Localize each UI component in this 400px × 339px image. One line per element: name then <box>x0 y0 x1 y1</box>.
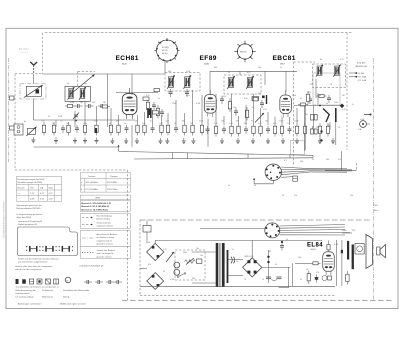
svg-text:300: 300 <box>300 161 303 163</box>
svg-text:u(bei Stat.2540): u(bei Stat.2540) <box>16 216 31 219</box>
svg-text:25k: 25k <box>350 195 353 197</box>
svg-text:200: 200 <box>326 159 329 161</box>
svg-text:0,5M: 0,5M <box>334 244 339 246</box>
svg-text:ground in chassis: ground in chassis <box>97 243 113 246</box>
svg-text:5k: 5k <box>228 72 230 74</box>
svg-text:0,25: 0,25 <box>342 109 346 111</box>
svg-text:Änderungen vorbehalten!: Änderungen vorbehalten! <box>18 303 42 306</box>
svg-text:EL 84: EL 84 <box>162 53 168 55</box>
svg-text:ECH81: ECH81 <box>162 47 170 49</box>
svg-text:47k: 47k <box>66 123 69 125</box>
svg-text:EL84: EL84 <box>307 242 323 248</box>
svg-text:0,05: 0,05 <box>247 72 251 74</box>
svg-text:EF89: EF89 <box>200 55 217 62</box>
svg-text:1n: 1n <box>352 104 354 106</box>
svg-text:1k: 1k <box>109 123 111 125</box>
svg-text:Kondensatoren: Kondensatoren <box>16 292 31 295</box>
svg-text:5k: 5k <box>190 123 192 125</box>
svg-text:70: 70 <box>244 279 246 281</box>
svg-text:5k: 5k <box>174 123 176 125</box>
svg-text:5k: 5k <box>286 239 288 241</box>
svg-text:300: 300 <box>316 127 319 129</box>
svg-text:Drahtbrücke: Drahtbrücke <box>42 289 54 292</box>
svg-text:Europaspannungen bis HJ58: Europaspannungen bis HJ58 <box>18 178 46 181</box>
svg-text:10n: 10n <box>84 83 87 85</box>
svg-text:50: 50 <box>306 269 308 271</box>
svg-text:6BD7: 6BD7 <box>280 64 286 66</box>
svg-text:47k: 47k <box>316 272 319 274</box>
svg-text:auf unbestimmte aufgenommen: auf unbestimmte aufgenommen <box>18 261 48 264</box>
svg-text:negativer pole to: negativer pole to <box>97 239 113 242</box>
svg-text:0,25: 0,25 <box>214 123 218 125</box>
svg-text:5k: 5k <box>275 264 277 266</box>
svg-text:0,5M: 0,5M <box>70 102 75 104</box>
svg-text:Bereich 3: 10,7 MHz Ratio: Bereich 3: 10,7 MHz Ratio <box>82 208 109 211</box>
svg-text:10n: 10n <box>200 255 203 257</box>
svg-text:50: 50 <box>326 103 328 105</box>
svg-text:47k: 47k <box>273 123 276 125</box>
svg-text:47k: 47k <box>308 92 311 94</box>
svg-text:6AJ8: 6AJ8 <box>122 63 128 66</box>
svg-text:side de von den components: side de von den components <box>15 268 42 271</box>
svg-text:6BQ5: 6BQ5 <box>311 249 317 251</box>
svg-text:DC working voltage: DC working voltage <box>16 295 35 298</box>
svg-text:0,05: 0,05 <box>338 159 342 161</box>
svg-text:In Gegenrichtung gemessen: In Gegenrichtung gemessen <box>16 213 43 216</box>
svg-text:150k: 150k <box>222 96 226 98</box>
svg-text:0,1: 0,1 <box>284 160 287 162</box>
svg-text:10n: 10n <box>196 248 199 250</box>
svg-text:Germany: Germany <box>19 51 29 54</box>
svg-text:Anschluss als Batterie: Anschluss als Batterie <box>97 233 118 236</box>
svg-text:5k: 5k <box>228 185 230 187</box>
svg-text:5k: 5k <box>74 121 76 123</box>
svg-text:50: 50 <box>67 83 69 85</box>
svg-text:6DA6: 6DA6 <box>204 63 210 66</box>
svg-text:ground / chassis: ground / chassis <box>97 255 112 258</box>
svg-text:0,5M: 0,5M <box>196 103 201 105</box>
svg-text:1k: 1k <box>262 279 264 281</box>
svg-text:10n: 10n <box>258 67 261 69</box>
svg-text:1k: 1k <box>312 159 314 161</box>
svg-text:70: 70 <box>60 121 62 123</box>
svg-text:• Si 400: • Si 400 <box>357 73 365 75</box>
svg-text:5k: 5k <box>150 121 152 123</box>
svg-text:87,5-100MHz: 87,5-100MHz <box>86 189 98 191</box>
svg-text:AW3561-6A: AW3561-6A <box>356 65 368 68</box>
svg-text:0,5M: 0,5M <box>294 121 299 123</box>
svg-text:1n: 1n <box>287 123 289 125</box>
svg-text:70: 70 <box>330 84 332 86</box>
svg-text:5k: 5k <box>48 116 50 118</box>
svg-text:migration marked: migration marked <box>97 225 114 228</box>
svg-text:1n: 1n <box>52 123 54 125</box>
svg-text:47k: 47k <box>244 123 247 125</box>
svg-text:0,25: 0,25 <box>340 59 344 61</box>
svg-text:0,25: 0,25 <box>165 121 169 123</box>
svg-text:230V: 230V <box>374 205 379 207</box>
svg-text:max. messbare St.: max. messbare St. <box>97 252 115 255</box>
svg-text:T.A.: T.A. <box>358 128 362 131</box>
svg-text:Busher-Umbro: Busher-Umbro <box>97 218 111 221</box>
svg-text:UKW: UKW <box>95 198 100 200</box>
svg-text:0,5M: 0,5M <box>360 119 365 121</box>
svg-text:50Hz: 50Hz <box>374 210 378 212</box>
svg-text:Gelocht plate seen from the co: Gelocht plate seen from the components <box>15 265 52 268</box>
svg-text:150k: 150k <box>183 252 187 254</box>
svg-text:0,25: 0,25 <box>163 249 167 251</box>
svg-text:Bereich: Bereich <box>18 187 26 190</box>
svg-text:Schaltungsänderungen vorbehalt: Schaltungsänderungen vorbehalten <box>3 201 6 238</box>
svg-text:Röhrenvoltmeter RV55/65: Röhrenvoltmeter RV55/65 <box>16 207 41 210</box>
svg-text:0,25: 0,25 <box>146 95 150 97</box>
svg-text:Bereich 2: 87,5-100 MHz Zf: Bereich 2: 87,5-100 MHz Zf <box>82 206 110 208</box>
svg-text:150k: 150k <box>334 102 338 104</box>
svg-text:2M: 2M <box>236 121 239 123</box>
svg-text:0,3P: 0,3P <box>30 199 35 201</box>
svg-text:0,001µF=1nF=1000pF·µF: 0,001µF=1nF=1000pF·µF <box>80 266 105 268</box>
svg-text:• DY 4,6A: • DY 4,6A <box>357 79 367 82</box>
svg-text:1k: 1k <box>252 107 254 109</box>
svg-text:25k: 25k <box>318 95 321 97</box>
svg-text:8n: 8n <box>24 121 26 123</box>
svg-text:Federn auf der Unterseite von: Federn auf der Unterseite von den Gehäus… <box>18 258 60 261</box>
svg-text:Watt: Watt <box>49 187 54 190</box>
svg-text:2M: 2M <box>80 102 83 104</box>
svg-text:Schaltdraht der Widerstände: Schaltdraht der Widerstände <box>63 289 90 292</box>
svg-text:500: 500 <box>298 257 301 259</box>
svg-text:8n: 8n <box>320 59 322 61</box>
svg-text:50: 50 <box>282 195 284 197</box>
svg-text:300: 300 <box>268 251 271 253</box>
svg-text:25k: 25k <box>258 93 261 95</box>
svg-text:200: 200 <box>214 67 217 69</box>
svg-text:300: 300 <box>327 125 330 127</box>
svg-text:0,05: 0,05 <box>186 95 190 97</box>
svg-text:2M: 2M <box>182 121 185 123</box>
svg-text:very disposition descriptions: very disposition descriptions du composa… <box>16 286 59 289</box>
svg-text:0,05: 0,05 <box>263 109 267 111</box>
svg-text:5k: 5k <box>300 279 302 281</box>
svg-text:• SY 4,8A: • SY 4,8A <box>357 76 367 79</box>
svg-text:47k: 47k <box>221 121 224 123</box>
svg-text:M: M <box>67 280 69 282</box>
svg-text:200: 200 <box>233 107 236 109</box>
svg-text:47k: 47k <box>148 264 151 266</box>
svg-text:150k: 150k <box>199 121 203 123</box>
svg-text:50: 50 <box>236 261 238 263</box>
svg-text:Spannungen gemessen mit: Spannungen gemessen mit <box>16 204 42 207</box>
svg-text:0,5M: 0,5M <box>58 116 63 118</box>
svg-text:2M: 2M <box>342 95 345 97</box>
svg-text:Bd 3504: Bd 3504 <box>19 47 29 51</box>
svg-text:47k: 47k <box>294 195 297 197</box>
svg-text:1510-230m: 1510-230m <box>107 189 118 191</box>
svg-text:1k: 1k <box>232 249 234 251</box>
svg-text:1,2V: 1,2V <box>30 193 35 195</box>
svg-text:B250 C75: B250 C75 <box>245 256 255 258</box>
svg-text:EBC81: EBC81 <box>240 52 247 54</box>
svg-text:47k: 47k <box>258 123 261 125</box>
svg-text:Gewünschte Dämpfung M: Gewünschte Dämpfung M <box>18 220 42 223</box>
svg-text:50: 50 <box>254 185 256 187</box>
svg-text:EBC81: EBC81 <box>273 55 296 62</box>
svg-text:1k: 1k <box>338 127 340 129</box>
svg-text:10n: 10n <box>41 121 44 123</box>
svg-text:E-Nr 626: E-Nr 626 <box>357 62 366 65</box>
svg-text:0,05: 0,05 <box>229 123 233 125</box>
svg-text:50: 50 <box>148 242 150 244</box>
svg-text:Betriebsspannung der: Betriebsspannung der <box>16 289 37 292</box>
svg-text:Pumpen: Pumpen <box>110 176 119 178</box>
svg-text:25k: 25k <box>135 121 138 123</box>
svg-text:Diebel impedance M: Diebel impedance M <box>18 224 37 226</box>
svg-text:0,25: 0,25 <box>159 123 163 125</box>
svg-text:150k: 150k <box>172 103 176 105</box>
svg-text:10n: 10n <box>305 114 308 116</box>
svg-text:150k: 150k <box>83 123 87 125</box>
svg-text:0,05: 0,05 <box>94 121 98 123</box>
svg-text:5k: 5k <box>300 98 302 100</box>
svg-text:150k: 150k <box>292 95 296 97</box>
svg-text:1,2V: 1,2V <box>49 199 54 201</box>
svg-text:47k: 47k <box>142 123 145 125</box>
svg-text:Hersteller-gruppe ab HJ48: Hersteller-gruppe ab HJ48 <box>18 181 43 184</box>
svg-text:8n: 8n <box>124 123 126 125</box>
svg-text:70: 70 <box>310 84 312 86</box>
svg-text:1n: 1n <box>280 67 282 69</box>
svg-text:Tastatur: Tastatur <box>88 175 96 178</box>
svg-text:2M: 2M <box>265 121 268 123</box>
svg-text:0,05: 0,05 <box>244 98 248 100</box>
svg-text:Gehäuse-Draht: Gehäuse-Draht <box>97 222 112 225</box>
svg-text:Zusätzl. bei Batterie: Zusätzl. bei Batterie <box>97 249 116 252</box>
svg-text:Volt: Volt <box>30 187 34 190</box>
svg-text:0,5M: 0,5M <box>170 279 175 281</box>
svg-text:70: 70 <box>251 121 253 123</box>
svg-text:2M: 2M <box>103 102 106 104</box>
svg-text:Nachverbindung: Nachverbindung <box>97 215 113 218</box>
svg-text:Bereich 1: 510-1620 kHz 1.Zf: Bereich 1: 510-1620 kHz 1.Zf <box>82 203 112 205</box>
svg-text:Rating: Rating <box>63 295 70 298</box>
svg-text:EF 89: EF 89 <box>162 50 168 52</box>
svg-text:300: 300 <box>192 278 195 280</box>
svg-text:200: 200 <box>92 102 95 104</box>
svg-text:am Rückw. Lautspr.: am Rückw. Lautspr. <box>97 236 116 239</box>
svg-text:505-1610kHz: 505-1610kHz <box>86 182 98 184</box>
svg-text:300: 300 <box>168 71 171 73</box>
svg-text:516-1488k: 516-1488k <box>107 182 118 184</box>
svg-text:150k: 150k <box>279 121 283 123</box>
svg-text:Widerstand: Widerstand <box>42 295 53 298</box>
svg-text:Modification rights reserved: Modification rights reserved <box>60 303 86 306</box>
svg-text:1n: 1n <box>158 98 160 100</box>
svg-text:5k: 5k <box>163 271 165 273</box>
svg-text:0,5M: 0,5M <box>186 71 191 73</box>
svg-text:47k: 47k <box>116 121 119 123</box>
svg-text:ECH81: ECH81 <box>116 55 139 62</box>
